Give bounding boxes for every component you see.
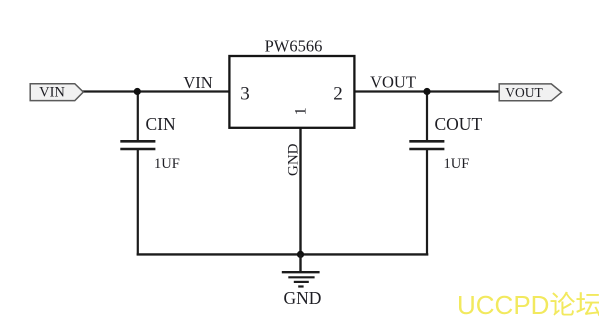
IC U1 PW6566 body — [229, 56, 354, 128]
wire bottom ground bus — [137, 253, 429, 255]
node junction dot at VIN/CIN — [134, 88, 141, 95]
port flag VOUT — [499, 84, 561, 101]
node junction dot at ground bus — [297, 251, 304, 258]
svg-text:1: 1 — [293, 107, 310, 115]
wire COUT bottom branch — [426, 150, 428, 256]
svg-text:VIN: VIN — [183, 73, 212, 92]
wire COUT top branch — [426, 92, 428, 141]
svg-text:GND: GND — [284, 288, 322, 308]
wire CIN top branch — [137, 92, 139, 141]
wire CIN bottom branch — [137, 150, 139, 256]
capacitor COUT — [409, 141, 444, 149]
svg-text:1UF: 1UF — [444, 156, 470, 172]
svg-text:GND: GND — [286, 143, 302, 176]
svg-text:1UF: 1UF — [154, 156, 180, 172]
svg-text:PW6566: PW6566 — [265, 36, 323, 55]
svg-text:COUT: COUT — [435, 114, 483, 134]
svg-text:CIN: CIN — [146, 114, 177, 134]
wire VOUT net: U1 pin 2 to flag — [355, 90, 501, 92]
svg-text:2: 2 — [333, 84, 343, 105]
svg-text:VOUT: VOUT — [505, 85, 543, 100]
port flag VIN — [30, 84, 83, 101]
node junction dot at VOUT/COUT — [423, 88, 430, 95]
svg-text:VOUT: VOUT — [370, 73, 416, 92]
svg-text:3: 3 — [240, 84, 250, 105]
pin number 1 (rotated) — [293, 107, 310, 115]
wire VIN net: flag tip to U1 pin 3 — [82, 90, 229, 92]
capacitor CIN — [120, 141, 155, 149]
pin name GND (rotated) — [286, 143, 302, 176]
svg-text:VIN: VIN — [39, 85, 65, 101]
ground symbol — [282, 254, 320, 286]
svg-text:UCCPD论坛: UCCPD论坛 — [457, 290, 599, 320]
wire U1 GND pin 1 down to ground bus — [299, 127, 301, 254]
